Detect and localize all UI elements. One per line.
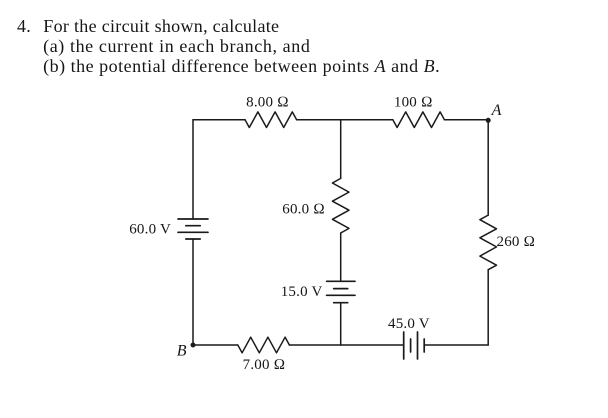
resistor R 60.0 ohm — [332, 178, 349, 233]
svg-text:4.: 4. — [17, 16, 31, 36]
wire top-left horizontal — [193, 119, 245, 121]
svg-text:(b) the potential difference b: (b) the potential difference between poi… — [43, 56, 440, 77]
svg-text:45.0 V: 45.0 V — [388, 316, 430, 332]
resistor R 7.00 ohm — [238, 337, 290, 353]
wire middle branch upper — [340, 120, 342, 179]
wire left branch lower — [192, 239, 194, 345]
svg-text:15.0 V: 15.0 V — [281, 284, 323, 300]
wire bottom-middle horizontal — [289, 344, 403, 346]
battery 15.0 V — [327, 281, 355, 302]
node B dot — [191, 343, 196, 348]
wire right branch lower — [487, 270, 489, 345]
svg-text:60.0 V: 60.0 V — [129, 222, 171, 238]
svg-text:7.00 Ω: 7.00 Ω — [243, 357, 286, 373]
battery 45.0 V — [404, 332, 425, 359]
wire top-right horizontal to node A — [444, 119, 488, 121]
wire middle branch lower — [340, 303, 342, 345]
resistor R 8.00 ohm — [245, 112, 297, 128]
svg-text:8.00 Ω: 8.00 Ω — [246, 95, 289, 111]
battery 60.0 V — [178, 219, 208, 239]
wire bottom-left from node B — [193, 344, 238, 346]
wire bottom-right horizontal — [424, 344, 488, 346]
svg-text:100 Ω: 100 Ω — [394, 95, 433, 111]
svg-text:60.0 Ω: 60.0 Ω — [282, 202, 325, 218]
node A dot — [486, 118, 491, 123]
svg-text:(a) the current in each branch: (a) the current in each branch, and — [43, 36, 310, 57]
resistor R 100 ohm — [393, 112, 445, 128]
wire top-middle horizontal — [297, 119, 393, 121]
wire left branch upper — [192, 120, 194, 219]
resistor R 260 ohm — [480, 215, 497, 270]
svg-text:B: B — [177, 343, 187, 360]
svg-text:For the circuit shown, calcula: For the circuit shown, calculate — [43, 16, 279, 36]
wire middle branch middle — [340, 233, 342, 281]
wire right branch upper — [487, 120, 489, 215]
svg-text:A: A — [491, 102, 502, 119]
svg-text:260 Ω: 260 Ω — [497, 234, 536, 250]
